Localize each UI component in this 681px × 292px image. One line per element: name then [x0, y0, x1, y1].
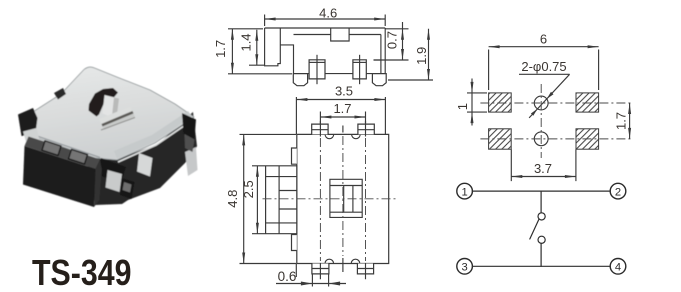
- top view bottom tab 2: [357, 264, 373, 274]
- terminal circle 4: [610, 259, 626, 275]
- top view center slot: [330, 179, 362, 217]
- dimension 1.7 left: [213, 29, 292, 74]
- svg-text:6: 6: [540, 32, 547, 47]
- actuator front face: [23, 146, 96, 207]
- corner tab left: [18, 108, 38, 136]
- hole top: [534, 96, 548, 110]
- top view body: [297, 134, 389, 263]
- dimension 1.9: [388, 29, 433, 80]
- front view inner right wall: [380, 35, 382, 74]
- front view right foot: [372, 74, 386, 86]
- cover left skirt flap: [23, 128, 40, 144]
- dimension 1: [455, 79, 487, 126]
- front view top edge: [265, 27, 386, 29]
- cover edge band: [114, 111, 192, 159]
- svg-text:2-φ0.75: 2-φ0.75: [521, 59, 566, 74]
- dimension 3.5: [296, 84, 385, 135]
- actuator notch 2: [69, 149, 88, 164]
- front view inner ledge right: [374, 59, 381, 61]
- svg-text:2: 2: [615, 186, 621, 198]
- svg-text:0.6: 0.6: [278, 269, 297, 284]
- svg-text:4.6: 4.6: [319, 5, 337, 20]
- cover slot bottom shadow: [101, 118, 135, 131]
- top view actuator: [266, 166, 297, 234]
- front view bottom edge: [294, 73, 386, 75]
- terminal circle 3: [457, 259, 473, 275]
- corner tab bottom: [98, 158, 126, 184]
- terminal 2 centerline: [359, 55, 361, 84]
- cover lower-left edge shade: [28, 133, 100, 158]
- contact bottom circle: [538, 236, 545, 243]
- svg-text:1.9: 1.9: [414, 47, 429, 65]
- dimension 4.6: [265, 5, 386, 26]
- svg-text:0.7: 0.7: [385, 31, 400, 49]
- svg-text:2.5: 2.5: [241, 180, 256, 198]
- actuator top face: [25, 137, 101, 170]
- wire to contact top: [540, 191, 542, 213]
- top view top tab 1: [312, 124, 328, 134]
- wire 3-4: [472, 265, 610, 267]
- top view top tab 2: [358, 124, 374, 134]
- front view terminal 2: [353, 60, 366, 79]
- dimension 1.7 right: [613, 103, 631, 139]
- centerline vertical middle: [342, 136, 344, 256]
- terminal circle 2: [610, 183, 626, 199]
- dimension 0.7: [374, 22, 409, 60]
- top view left notch upper: [292, 148, 297, 164]
- hole label leader underline: [519, 73, 570, 75]
- svg-text:1.7: 1.7: [213, 40, 228, 58]
- metal clip front left: [106, 170, 123, 192]
- pad bottom-right: [576, 129, 599, 149]
- dimension 1.7 center: [320, 101, 365, 124]
- metal clip front center: [137, 153, 153, 177]
- cover slot bright bar: [103, 95, 120, 119]
- svg-text:1: 1: [461, 186, 467, 198]
- dimension 4.8: [225, 134, 296, 263]
- cover slot spring leg 1: [99, 107, 133, 125]
- centerline vertical tab 2: [365, 138, 367, 261]
- actuator notch 1: [42, 141, 61, 156]
- dimension 0.6: [276, 264, 346, 287]
- front view cover inner top line: [294, 34, 381, 36]
- svg-text:1.7: 1.7: [333, 101, 351, 116]
- terminal 1 centerline: [316, 55, 318, 84]
- wire from contact bottom: [540, 243, 542, 266]
- metal cover top face: [25, 67, 194, 160]
- hole bottom: [534, 132, 548, 146]
- top view top bump 1: [325, 134, 334, 138]
- svg-text:4.8: 4.8: [225, 190, 240, 208]
- top view top bump 2: [352, 134, 361, 138]
- switch underbody silhouette: [24, 112, 197, 205]
- front view terminal 1: [309, 60, 325, 79]
- svg-text:TS-349: TS-349: [32, 252, 132, 292]
- top view bottom bump 1: [325, 259, 334, 263]
- corner tab right: [182, 113, 196, 139]
- svg-text:4: 4: [615, 262, 621, 274]
- svg-text:1.4: 1.4: [238, 33, 253, 51]
- switch lever: [530, 220, 539, 240]
- cover slot dark mass: [89, 88, 119, 117]
- dimension 6: [489, 32, 599, 90]
- top view bottom bump 2: [351, 259, 360, 263]
- front view right edge: [384, 28, 386, 74]
- top view left notch lower: [292, 235, 297, 251]
- pad top-right: [576, 93, 599, 112]
- svg-text:1.7: 1.7: [613, 112, 628, 130]
- top-left edge nick: [54, 88, 66, 100]
- svg-text:3.7: 3.7: [534, 161, 552, 176]
- pad bottom-left: [489, 129, 512, 149]
- hole label leader slash: [529, 74, 570, 118]
- dark inset front center: [120, 178, 135, 199]
- contact top circle: [538, 213, 545, 220]
- centerline pad row 1: [480, 102, 633, 104]
- front view left foot: [293, 74, 307, 86]
- dimension 3.7: [511, 150, 576, 182]
- pad top-left: [489, 93, 512, 112]
- centerline horizontal: [263, 198, 396, 200]
- terminal circle 1: [457, 183, 473, 199]
- front view top notch: [331, 28, 349, 41]
- dimension 2.5: [241, 166, 265, 234]
- underbody right edge highlight: [118, 119, 194, 162]
- dimension 1.4: [238, 30, 264, 65]
- svg-text:1: 1: [455, 103, 470, 110]
- cover slot spring leg 2: [103, 114, 136, 131]
- wire 1-2: [472, 190, 610, 192]
- centerline holes vertical: [540, 84, 542, 158]
- svg-text:3: 3: [461, 262, 467, 274]
- front view actuator plunger outline: [265, 28, 281, 66]
- actuator right face: [94, 160, 102, 208]
- svg-text:3.5: 3.5: [335, 84, 353, 99]
- metal terminal right: [185, 147, 198, 176]
- centerline vertical tab 1: [319, 138, 321, 261]
- top view bottom tab 1: [312, 264, 329, 274]
- front view body left wall: [280, 45, 293, 74]
- centerline pad row 2: [480, 138, 633, 140]
